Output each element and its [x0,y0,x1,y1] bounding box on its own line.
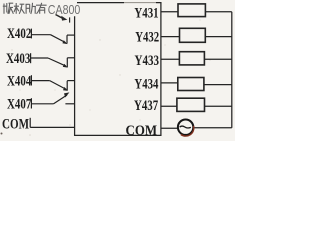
svg-text:COM: COM [2,116,29,132]
svg-text:CA800: CA800 [48,2,81,17]
svg-text:Y437: Y437 [134,98,159,114]
svg-text:X404: X404 [7,73,32,89]
svg-text:X407: X407 [7,96,32,112]
svg-text:Y434: Y434 [134,76,158,92]
svg-text:Y431: Y431 [134,6,158,22]
svg-text:X403: X403 [6,51,30,67]
svg-text:X402: X402 [7,26,31,42]
svg-text:Y432: Y432 [135,30,159,46]
svg-text:COM: COM [126,123,158,139]
svg-text:Y433: Y433 [135,53,160,69]
